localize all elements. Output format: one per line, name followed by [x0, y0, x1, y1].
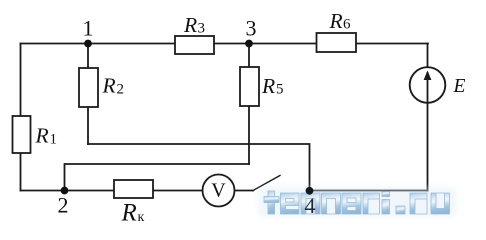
svg-text:V: V	[211, 180, 226, 202]
svg-text:R: R	[329, 9, 343, 33]
svg-text:E: E	[453, 76, 466, 97]
svg-text:R: R	[261, 74, 275, 98]
svg-text:3: 3	[246, 15, 257, 40]
svg-text:2: 2	[58, 193, 69, 218]
svg-text:5: 5	[276, 82, 284, 98]
svg-text:2: 2	[117, 81, 125, 97]
svg-text:R: R	[35, 124, 49, 148]
svg-text:R: R	[121, 199, 137, 226]
svg-text:4: 4	[305, 193, 316, 218]
svg-text:3: 3	[198, 21, 206, 37]
svg-text:R: R	[102, 74, 116, 98]
svg-text:R: R	[183, 13, 197, 37]
svg-text:6: 6	[343, 17, 351, 33]
svg-text:1: 1	[50, 131, 58, 147]
svg-text:1: 1	[83, 16, 94, 41]
svg-text:к: к	[138, 210, 145, 225]
